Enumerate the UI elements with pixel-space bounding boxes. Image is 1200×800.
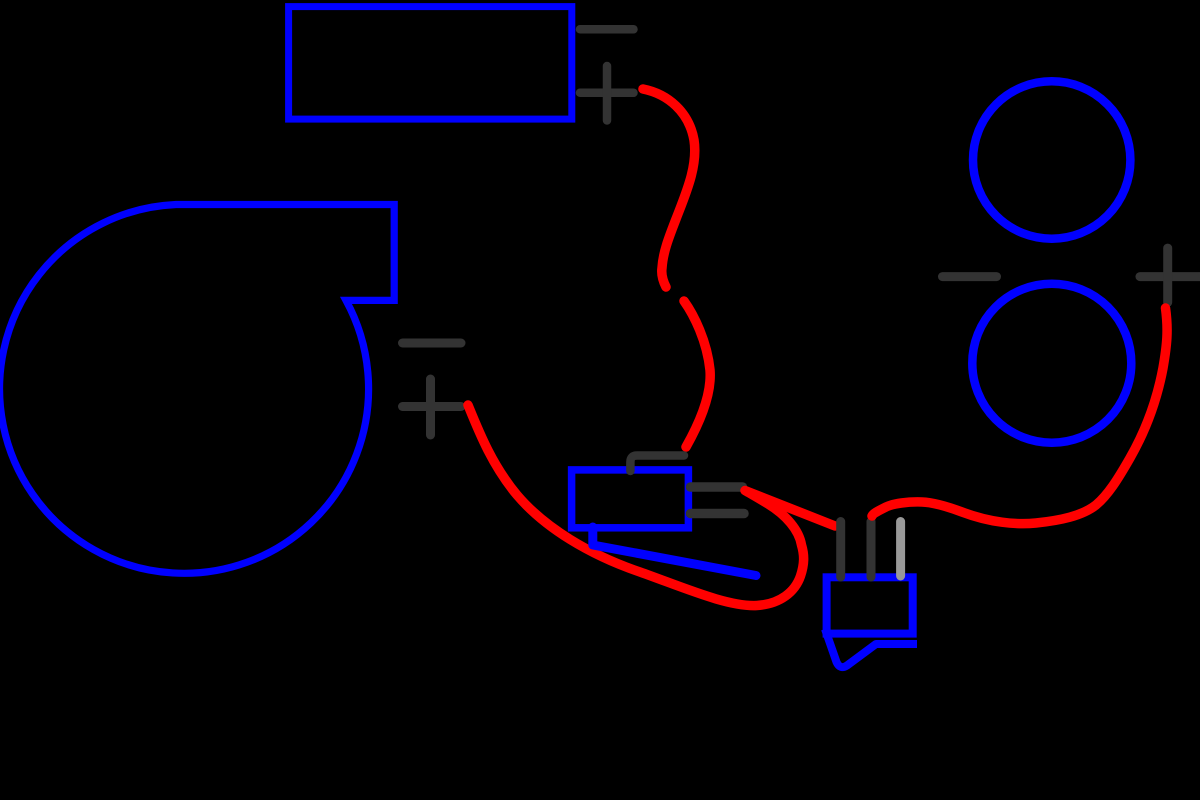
relay coil pin (top, L-shaped) [630, 456, 684, 472]
battery negative terminal [580, 25, 634, 34]
lamps positive terminal [1140, 248, 1200, 302]
lamps negative terminal [943, 272, 997, 281]
lamp L1 (top circle) [973, 81, 1130, 238]
relay lever arm [593, 527, 756, 576]
wire lamps+ to flasher pin2 [872, 308, 1167, 524]
flasher tail [825, 629, 917, 667]
lamp L2 (bottom circle) [972, 284, 1131, 443]
battery positive terminal [580, 66, 634, 121]
flasher pin 3 [896, 522, 905, 577]
blower positive terminal [403, 379, 462, 435]
wire blower+ to relay pin [468, 405, 804, 606]
flasher pin 2 [867, 522, 876, 578]
flasher pin 1 [836, 522, 845, 578]
relay pin 30 [691, 482, 743, 492]
battery B1 [289, 7, 572, 120]
relay K1 [572, 470, 689, 528]
relay pin 87 [691, 509, 745, 519]
blower motor M1 [0, 205, 394, 574]
wire relay pin to flasher pin1 [745, 491, 835, 527]
flasher unit F1 [827, 577, 913, 633]
wire battery+ upper segment [643, 89, 695, 287]
blower negative terminal [403, 339, 462, 348]
wire battery+ lower segment [684, 301, 710, 447]
